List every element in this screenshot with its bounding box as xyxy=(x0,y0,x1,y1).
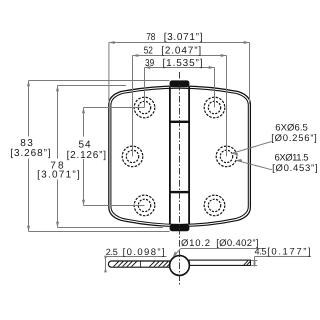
hole BL inner xyxy=(138,199,150,211)
dim 83 ext bottom xyxy=(29,231,170,233)
barrel right side xyxy=(188,87,190,225)
dim dia10.2 leader xyxy=(173,249,181,257)
hole ML outer xyxy=(122,146,143,167)
svg-text:[Ø0.453”]: [Ø0.453”] xyxy=(272,163,318,174)
dim 78 ext left xyxy=(108,43,110,104)
svg-text:[2.047”]: [2.047”] xyxy=(161,45,201,56)
dim 54 vertical line xyxy=(83,108,85,137)
leader hole large dia xyxy=(236,160,272,170)
section left bar hatch patch A xyxy=(114,262,170,267)
section left leaf bar xyxy=(108,261,169,267)
svg-text:[3.071”]: [3.071”] xyxy=(37,170,80,181)
svg-text:[1.535”]: [1.535”] xyxy=(163,58,203,69)
hole TL outer xyxy=(134,97,155,118)
dim 52 ext left xyxy=(132,56,134,157)
dim 4.5 underline xyxy=(255,256,312,258)
section centerline xyxy=(179,251,181,286)
dim 4.5 arrow line xyxy=(254,257,256,267)
svg-text:39: 39 xyxy=(145,58,155,69)
knuckle joint lower xyxy=(170,191,189,193)
svg-text:4.5: 4.5 xyxy=(255,247,267,257)
dim 78v ext bottom xyxy=(58,227,164,229)
dim dia10.2 underline xyxy=(181,248,264,250)
dim 83 vertical line xyxy=(28,81,30,137)
section left bar hatch patch B xyxy=(150,262,155,267)
pin centerline top view xyxy=(179,72,181,248)
dim 4.5 ext bottom xyxy=(251,265,257,267)
dim 39 top line xyxy=(145,67,215,69)
knuckle joint upper xyxy=(170,121,189,123)
hinge leaf outline outer xyxy=(109,86,251,227)
dim 78 top line xyxy=(109,42,250,44)
dim 52 ext right xyxy=(226,56,228,157)
barrel bottom cap xyxy=(170,224,190,231)
dim 2.5 underline xyxy=(106,256,167,258)
dim 52 top line xyxy=(133,55,227,57)
section left bar divider xyxy=(140,261,142,267)
svg-text:Ø10.2: Ø10.2 xyxy=(181,238,210,249)
section barrel circle xyxy=(170,256,190,276)
svg-text:52: 52 xyxy=(144,45,154,56)
section right bar hatch lines xyxy=(244,261,248,265)
hole TR inner xyxy=(208,101,220,113)
hole BL outer xyxy=(134,195,155,216)
svg-text:[0.098”]: [0.098”] xyxy=(123,247,165,258)
dim 54 ext bottom xyxy=(84,205,145,207)
dim 78v vertical line xyxy=(57,86,59,159)
svg-text:[3.268”]: [3.268”] xyxy=(10,148,51,159)
hole MR outer xyxy=(216,146,237,167)
section right leaf bar xyxy=(189,260,250,265)
svg-text:6XØ11.5: 6XØ11.5 xyxy=(275,152,309,163)
dim 39 ext right xyxy=(214,68,216,108)
dim 4.5 ext top xyxy=(251,260,257,262)
svg-text:2.5: 2.5 xyxy=(106,247,118,257)
dim 78v ext top xyxy=(58,85,127,87)
dim 54 ext top xyxy=(84,107,145,109)
dim 39 ext left xyxy=(144,68,146,108)
barrel top cap xyxy=(170,80,190,87)
svg-text:6XØ6.5: 6XØ6.5 xyxy=(275,122,308,133)
barrel left side xyxy=(169,87,171,225)
svg-text:[0.177”]: [0.177”] xyxy=(267,247,310,258)
dim 78 ext right xyxy=(249,43,251,105)
hole MR inner xyxy=(220,150,232,162)
svg-text:[Ø0.256”]: [Ø0.256”] xyxy=(271,133,317,144)
dim 83 ext top xyxy=(29,80,170,82)
svg-text:[2.126”]: [2.126”] xyxy=(67,150,107,161)
hole BR inner xyxy=(208,199,220,211)
svg-text:[Ø0.402”]: [Ø0.402”] xyxy=(216,238,258,249)
leader hole small dia xyxy=(232,142,272,154)
svg-text:78: 78 xyxy=(146,32,156,43)
hole ML inner xyxy=(126,150,138,162)
svg-text:[3.071”]: [3.071”] xyxy=(164,32,203,43)
hole TR outer xyxy=(204,97,225,118)
hole BR outer xyxy=(204,195,225,216)
hinge leaf outline inner xyxy=(111,88,248,224)
dim 2.5 arrow line xyxy=(105,257,107,273)
hole TL inner xyxy=(138,101,150,113)
